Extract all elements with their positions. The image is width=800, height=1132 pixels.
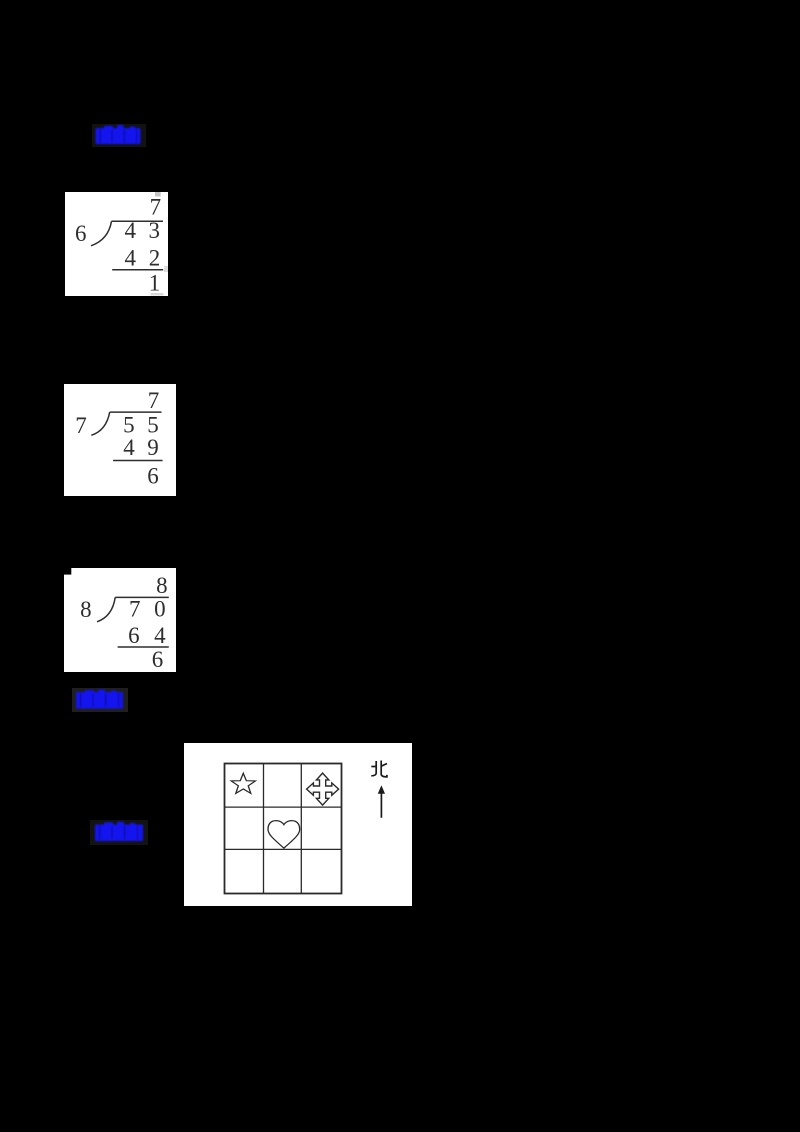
division box 3 : 70 ÷ 8	[64, 568, 176, 672]
blue label 3	[90, 820, 148, 845]
blue label 1	[92, 124, 146, 147]
svg-text:7: 7	[129, 596, 141, 621]
grid figure box	[184, 743, 412, 906]
北 glyph	[371, 761, 387, 777]
svg-text:8: 8	[156, 573, 168, 598]
svg-text:9: 9	[147, 435, 159, 460]
division box 2 : 55 ÷ 7	[64, 384, 176, 497]
svg-text:2: 2	[148, 245, 159, 270]
svg-text:7: 7	[75, 412, 87, 437]
svg-text:8: 8	[80, 597, 92, 622]
four-way arrow (top-right cell)	[307, 773, 339, 805]
blue label 2	[72, 688, 128, 712]
svg-text:4: 4	[123, 435, 135, 460]
svg-text:6: 6	[128, 623, 140, 648]
svg-text:5: 5	[123, 412, 134, 437]
star (top-left cell)	[231, 773, 255, 793]
svg-text:4: 4	[154, 623, 166, 648]
svg-text:7: 7	[149, 195, 161, 220]
svg-text:5: 5	[147, 412, 159, 437]
svg-text:4: 4	[124, 245, 136, 270]
svg-text:6: 6	[74, 221, 86, 246]
svg-text:0: 0	[154, 596, 166, 621]
3x3 grid	[225, 764, 342, 894]
north arrow	[380, 792, 382, 818]
svg-text:6: 6	[152, 647, 164, 672]
heart (center cell)	[268, 821, 300, 848]
svg-text:7: 7	[148, 387, 160, 412]
svg-text:1: 1	[148, 270, 159, 295]
division box 1 : 43 ÷ 6	[65, 192, 168, 296]
svg-text:6: 6	[147, 463, 159, 488]
